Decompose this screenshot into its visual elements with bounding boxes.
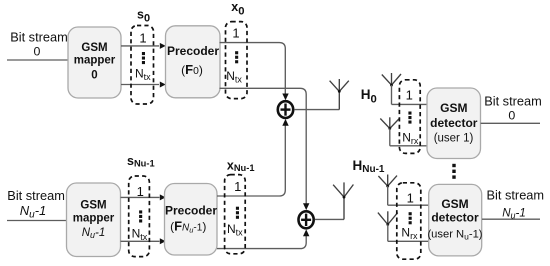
svg-text:detector: detector bbox=[430, 116, 478, 130]
wire: detector1 output bit stream 0 bbox=[481, 122, 540, 124]
rx antenna 2a bbox=[378, 175, 397, 206]
svg-text:Bit stream: Bit stream bbox=[484, 93, 542, 108]
svg-text:Bit stream: Bit stream bbox=[7, 188, 65, 203]
wire: mapper0 row 1 to precoder0 bbox=[121, 45, 159, 47]
wire: rx ant 2a to detectorN row 1 bbox=[388, 204, 429, 206]
block: GSM mapper 0 (U1) bbox=[68, 27, 121, 98]
svg-text:(F0): (F0) bbox=[181, 62, 203, 77]
bus box xNu-1 bbox=[225, 175, 246, 254]
svg-text:GSM: GSM bbox=[441, 197, 468, 211]
svg-text:detector: detector bbox=[431, 211, 479, 225]
block: GSM mapper Nu-1 bbox=[67, 183, 121, 257]
wire: detectorN output bit stream Nu-1 bbox=[482, 218, 540, 220]
adder U3 (top combiner) bbox=[278, 101, 293, 118]
arrowhead into adder2 top bbox=[303, 203, 309, 210]
arrowhead into precoderN row Ntx bbox=[160, 238, 166, 244]
svg-text:0: 0 bbox=[33, 44, 40, 58]
arrowhead into adder2 bottom bbox=[303, 229, 309, 236]
rx antenna 1b bbox=[380, 117, 399, 146]
tx antenna 1 bbox=[330, 79, 349, 110]
block: GSM detector user 1 bbox=[427, 88, 481, 159]
wire: precoder0 row 1 out, to adder1 top bbox=[220, 43, 286, 94]
bus box x0 bbox=[226, 22, 248, 99]
bus box s0 bbox=[131, 26, 154, 105]
bus box sNu-1 bbox=[129, 176, 150, 257]
arrowhead into precoder0 row Ntx bbox=[160, 82, 166, 88]
rx antenna 1a bbox=[382, 73, 401, 104]
wire: mapper0 row Ntx to precoder0 bbox=[121, 84, 159, 86]
svg-text:1: 1 bbox=[407, 191, 414, 206]
wire: bit stream Nu-1 input line bbox=[7, 220, 67, 222]
wire: precoderN row Ntx out, to adder2 bottom bbox=[217, 235, 306, 249]
arrowhead into adder1 bottom bbox=[282, 119, 288, 126]
svg-text:0: 0 bbox=[508, 109, 515, 123]
wire: rx ant 1a to detector1 row 1 bbox=[392, 103, 428, 105]
wire: precoder0 row Ntx out, to adder2 top bbox=[220, 88, 307, 204]
svg-text:GSM: GSM bbox=[440, 101, 467, 115]
block: Precoder F0 bbox=[166, 26, 221, 98]
svg-text:GSM: GSM bbox=[81, 42, 107, 54]
arrowhead into precoderN row 1 bbox=[160, 194, 166, 200]
svg-text:GSM: GSM bbox=[80, 199, 106, 211]
bus box rx userN bbox=[397, 183, 421, 259]
block: Precoder FNu-1 bbox=[165, 184, 218, 256]
svg-text:1: 1 bbox=[137, 184, 144, 199]
rx antenna 2b bbox=[378, 211, 398, 241]
ellipsis dots between detectors bbox=[452, 164, 455, 179]
svg-text:Precoder: Precoder bbox=[167, 44, 219, 58]
wire: adder1 output to tx antenna 1 bbox=[294, 109, 339, 111]
wire: precoderN row 1 out, to adder1 bottom bbox=[217, 125, 285, 196]
svg-text:1: 1 bbox=[232, 26, 239, 41]
tx antenna 2 bbox=[333, 182, 353, 219]
svg-text:1: 1 bbox=[234, 179, 241, 194]
node: Bit stream Nu-1 input label bbox=[7, 188, 65, 221]
node: Bit stream 0 input label bbox=[10, 29, 68, 58]
wire: bit stream 0 input line bbox=[7, 59, 68, 61]
arrowhead into adder1 top bbox=[282, 94, 288, 101]
svg-text:(user 1): (user 1) bbox=[434, 133, 474, 145]
wire: adder2 output to tx antenna 2 bbox=[315, 218, 344, 220]
svg-text:Precoder: Precoder bbox=[165, 203, 217, 217]
adder U4 (bottom combiner) bbox=[299, 211, 314, 228]
svg-text:Bit stream: Bit stream bbox=[486, 187, 544, 202]
wire: rx ant 1b to detector1 row Nrx bbox=[390, 145, 427, 147]
block: GSM detector user Nu-1 bbox=[427, 184, 482, 256]
svg-text:Bit stream: Bit stream bbox=[10, 29, 68, 44]
svg-text:(user Nu-1): (user Nu-1) bbox=[427, 229, 482, 242]
svg-text:mapper: mapper bbox=[74, 55, 116, 67]
svg-text:mapper: mapper bbox=[73, 213, 115, 225]
svg-text:0: 0 bbox=[91, 69, 97, 81]
svg-text:1: 1 bbox=[139, 30, 146, 45]
node: Bit stream Nu-1 output label bbox=[486, 187, 544, 220]
wire: mapperN row Ntx to precoderN bbox=[121, 240, 160, 242]
node: Bit stream 0 output label bbox=[484, 93, 542, 122]
bus box rx user1 bbox=[399, 80, 420, 154]
wire: rx ant 2b to detectorN row Nrx bbox=[388, 240, 429, 242]
wire: mapperN row 1 to precoderN bbox=[121, 196, 160, 198]
arrowhead into precoder0 row 1 bbox=[160, 43, 166, 49]
svg-text:1: 1 bbox=[406, 88, 413, 103]
